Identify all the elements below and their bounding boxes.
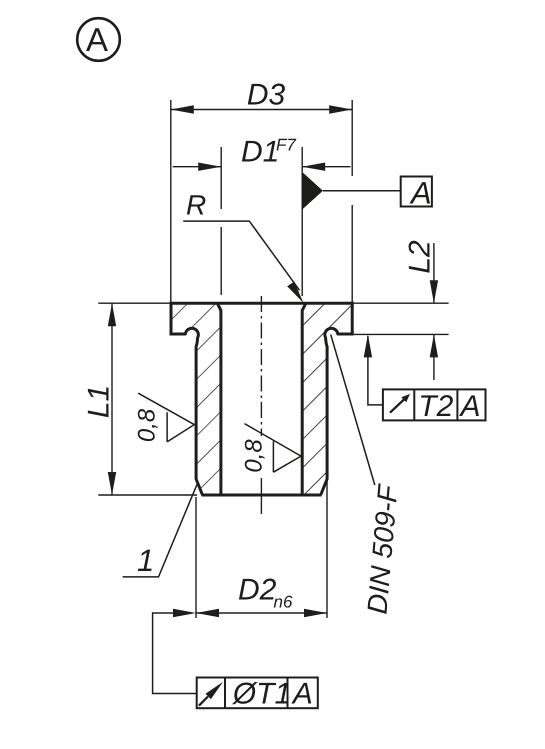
- tolerance frame T2: cell divider 2: [456, 389, 458, 420]
- dimension L1: top extension line: [98, 302, 169, 304]
- dimension L2: lower arrowhead (pointing up): [430, 334, 438, 357]
- dimension D2: right arrowhead: [304, 609, 327, 617]
- bore left wall with top chamfer: [217, 303, 221, 495]
- view label circle A: [77, 18, 120, 61]
- tolerance frame T2: circular runout symbol stem: [390, 399, 405, 413]
- runout frame T1: circular runout symbol stem: [199, 697, 208, 706]
- dimension D1: tolerance superscript F7: [277, 139, 297, 151]
- dimension D2: label D2: [239, 579, 276, 600]
- tolerance frame T2: leader arrowhead at flange bottom face: [364, 334, 372, 357]
- radius label R: [187, 195, 205, 214]
- surface roughness symbol in bore: [245, 424, 302, 473]
- tolerance frame T2: cell divider 1: [413, 389, 415, 420]
- runout frame T1: circular runout symbol arrowhead: [206, 682, 224, 699]
- runout frame T1: cell divider 1: [224, 678, 226, 709]
- dimension L2: upper dimension line: [433, 243, 435, 303]
- item number 1: underline and leader to bottom chamfer: [123, 484, 197, 577]
- dimension L2: bottom extension line: [354, 333, 449, 335]
- runout frame T1: leader arrowhead at D2 extension line: [173, 609, 196, 617]
- surface roughness value 0,8 (rotated): [138, 409, 158, 441]
- surface roughness symbol on body outer wall: [138, 393, 194, 442]
- bushing flange left edge: [170, 302, 173, 334]
- datum A: filled datum triangle on D1 extension line: [302, 172, 323, 210]
- dimension D3: dimension line: [171, 109, 352, 111]
- runout frame T1: value ØT1: [232, 682, 289, 704]
- radius R leader arrowhead at bore top edge: [287, 282, 303, 303]
- dimension L1: dimension line: [111, 303, 113, 495]
- dimension D3: label D3: [248, 84, 285, 105]
- surface roughness value 0,8 in bore (rotated): [245, 439, 265, 471]
- dimension D1: right arrowhead (outside, pointing left): [302, 163, 325, 171]
- tolerance frame T2: circular runout symbol arrowhead: [401, 394, 410, 402]
- right profile: flange bottom, DIN 509-F undercut, body wall, bottom chamfer: [321, 328, 354, 495]
- dimension D1: label D1: [242, 141, 277, 162]
- dimension D2: right extension line: [326, 479, 328, 618]
- dimension D2: tolerance subscript n6: [274, 596, 293, 608]
- dimension D3: left extension line: [170, 100, 172, 303]
- runout frame T1: cell divider 2: [287, 678, 289, 709]
- datum A: letter A: [409, 182, 430, 203]
- tolerance frame T2: datum reference A: [459, 395, 479, 416]
- dimension D2: left extension line: [195, 497, 197, 618]
- runout frame T1: frame box: [197, 678, 318, 709]
- tolerance frame T2: value T2: [421, 395, 453, 416]
- dimension D1: left arrowhead (outside, pointing right): [198, 163, 221, 171]
- bushing bottom face edge: [202, 494, 322, 497]
- centerline lower part: [260, 478, 262, 514]
- bore right wall with top chamfer: [302, 303, 306, 495]
- dimension L2: lower dimension line: [433, 334, 435, 380]
- dimension D3: right arrowhead: [329, 105, 352, 113]
- left profile: flange bottom, DIN 509-F undercut, body wall, bottom chamfer: [170, 328, 203, 495]
- dimension L1: bottom arrowhead: [108, 472, 116, 495]
- dimension D2: dimension line: [196, 612, 327, 614]
- centerline upper part (dash-dot): [260, 296, 262, 436]
- dimension D3: left arrowhead: [171, 105, 194, 113]
- bushing flange top face edge: [170, 302, 354, 305]
- section hatching left wall: [160, 295, 235, 505]
- dimension L2: top extension line: [354, 302, 449, 304]
- tolerance frame T2: leader line: [368, 336, 383, 405]
- bushing flange right edge: [351, 302, 354, 334]
- datum A: leader line to frame: [323, 190, 401, 192]
- dimension L1: label L1 (rotated): [88, 387, 109, 417]
- dimension L2: label L2 (rotated): [409, 241, 430, 273]
- dimension D1: right dimension line tail: [302, 166, 350, 168]
- dimension L2: upper arrowhead (pointing down): [430, 280, 438, 303]
- dimension L1: top arrowhead: [108, 303, 116, 326]
- item number 1: [138, 550, 152, 571]
- runout frame T1: leader line: [153, 613, 197, 694]
- runout frame T1: datum reference A: [291, 683, 311, 704]
- radius R leader line: [183, 221, 299, 290]
- undercut note: label DIN 509-F (rotated): [367, 483, 398, 614]
- dimension D1: right extension line: [301, 147, 303, 296]
- dimension D1: left extension line (broken at R leader): [220, 147, 222, 295]
- dimension L1: bottom extension line: [98, 494, 197, 496]
- section hatching right wall: [295, 295, 365, 505]
- dimension D3: right extension line (broken at datum leader): [351, 100, 353, 303]
- dimension D1: left dimension line tail: [173, 166, 221, 168]
- dimension D2: left arrowhead: [196, 609, 219, 617]
- datum A: frame box: [401, 177, 432, 207]
- tolerance frame T2: frame box: [383, 389, 486, 420]
- undercut note: leader line: [331, 335, 375, 486]
